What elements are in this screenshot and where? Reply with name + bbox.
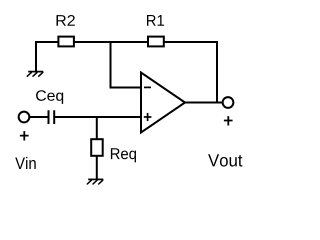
resistor Req — [91, 139, 103, 156]
op-amp U1 — [141, 73, 185, 133]
resistor R2 — [58, 37, 74, 47]
label Vout — [208, 154, 242, 166]
ground G2 — [88, 178, 103, 180]
wire: Ceq to non-inverting input — [55, 116, 141, 118]
wire: branch down to ground on left — [35, 41, 37, 72]
label Req — [111, 148, 136, 162]
label Vin — [15, 157, 36, 169]
wire: junction down to Req — [96, 117, 98, 140]
ground G1 — [28, 71, 43, 73]
input terminal Vin — [19, 112, 30, 123]
resistor R1 — [148, 37, 164, 47]
wire: feedback node down to inverting input — [111, 41, 141, 88]
label R1 — [147, 15, 164, 26]
plus polarity at input — [20, 131, 29, 140]
output terminal Vout — [223, 97, 234, 108]
wire: Req to ground — [96, 155, 98, 180]
label Ceq — [36, 90, 63, 104]
wire: R1 to top-right corner down to output node — [164, 42, 217, 103]
plus polarity at output — [224, 116, 233, 125]
wire: input terminal to Ceq — [29, 116, 48, 118]
wire: R2 to R1 (feedback node wire) — [74, 41, 148, 43]
wire: top-left segment from ground branch corner to R2 — [36, 41, 59, 43]
wire: op-amp output to output terminal — [184, 102, 223, 104]
label R2 — [57, 15, 75, 26]
capacitor Ceq — [49, 110, 55, 124]
